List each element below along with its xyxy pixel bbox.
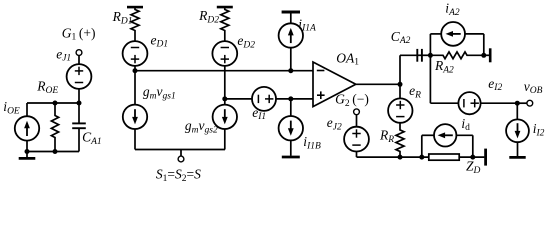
- svg-text:G2 (−): G2 (−): [335, 92, 369, 109]
- svg-text:RD2: RD2: [198, 8, 219, 25]
- svg-text:RD1: RD1: [112, 9, 133, 26]
- svg-text:id: id: [461, 116, 470, 133]
- svg-text:eI1: eI1: [252, 105, 266, 122]
- svg-text:iA2: iA2: [445, 1, 460, 18]
- svg-text:CA2: CA2: [391, 29, 411, 46]
- svg-text:iI1B: iI1B: [303, 134, 321, 151]
- svg-text:eR: eR: [409, 83, 421, 100]
- svg-text:gmvgs1: gmvgs1: [143, 84, 176, 101]
- svg-text:S1=S2=S: S1=S2=S: [156, 167, 201, 184]
- svg-text:RA2: RA2: [434, 58, 454, 75]
- svg-text:CA1: CA1: [82, 130, 102, 147]
- svg-text:eD2: eD2: [237, 33, 255, 50]
- svg-text:eJ2: eJ2: [327, 115, 342, 132]
- svg-text:eI2: eI2: [488, 76, 502, 93]
- svg-text:iI2: iI2: [533, 121, 545, 138]
- svg-text:ROE: ROE: [36, 79, 58, 96]
- svg-text:ZD: ZD: [466, 159, 481, 176]
- svg-text:iOE: iOE: [3, 99, 20, 116]
- svg-text:iI1A: iI1A: [298, 17, 316, 34]
- svg-text:G1 (+): G1 (+): [62, 25, 96, 42]
- svg-text:eD1: eD1: [151, 32, 169, 49]
- svg-text:RR: RR: [379, 128, 394, 145]
- svg-text:eJ1: eJ1: [56, 47, 71, 64]
- svg-text:OA1: OA1: [336, 50, 359, 67]
- svg-text:vOB: vOB: [524, 79, 543, 96]
